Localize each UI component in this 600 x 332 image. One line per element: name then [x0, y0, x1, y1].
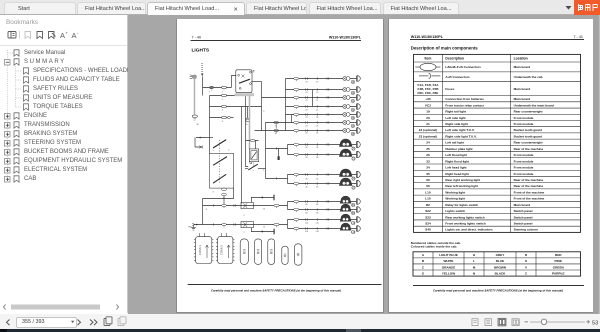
wire feed flood group	[266, 148, 288, 150]
panel toolbar separator	[0, 45, 127, 47]
ground drop on flood feed	[278, 149, 280, 161]
wire to lamp 23 right side light TUV	[286, 114, 357, 116]
terminal bar lamp 19	[357, 76, 360, 82]
wire fuse row 4	[210, 117, 234, 119]
svg-text:21: 21	[426, 122, 430, 126]
svg-text:21: 21	[316, 100, 318, 102]
svg-text:L10: L10	[316, 223, 319, 225]
connector on lamp 22 wire	[294, 105, 329, 109]
svg-text:19: 19	[426, 110, 430, 114]
panel toolbar icons	[8, 31, 56, 39]
wire working pair bus 2	[287, 220, 289, 229]
wire to head lamp 34 left	[288, 174, 357, 176]
wire lamp feed riser x265.7	[265, 123, 267, 179]
svg-text:PINK: PINK	[555, 259, 563, 263]
svg-text:Steering column: Steering column	[514, 228, 538, 232]
svg-text:2: 2	[244, 215, 245, 217]
switch S23 contact	[245, 162, 258, 170]
svg-text:Description of main components: Description of main components	[411, 45, 478, 50]
wire to head lamp 35 right	[288, 183, 357, 185]
svg-text:66: 66	[306, 213, 308, 215]
svg-text:66: 66	[316, 213, 318, 215]
wire riser x247.8 with connector	[247, 107, 249, 119]
right scrollbar strip	[593, 15, 600, 314]
connector pair below S22	[222, 188, 227, 196]
connector on F2 right	[274, 223, 279, 227]
wire gray bus from +30 down	[194, 79, 196, 115]
svg-text:+30: +30	[425, 97, 431, 101]
svg-text:W110-W130/130PL: W110-W130/130PL	[411, 35, 444, 39]
svg-text:F8C, F8C, F8E: F8C, F8C, F8E	[418, 91, 439, 95]
svg-text:Left side light T.U.V.: Left side light T.U.V.	[445, 128, 474, 132]
head lamp 35 right	[339, 178, 352, 186]
fuse F5A inline	[209, 86, 213, 91]
expander boxes	[5, 60, 11, 183]
ground terminal S1	[273, 195, 275, 201]
terminal bar lamp 20	[357, 87, 360, 93]
connector C7	[294, 244, 302, 265]
wire riser pair bus b	[291, 115, 293, 123]
relay R2	[249, 149, 258, 164]
svg-text:L10: L10	[425, 197, 431, 201]
switch S22 contact a	[213, 157, 227, 166]
svg-text:25: 25	[306, 133, 308, 135]
right page footer	[413, 285, 584, 287]
svg-text:Connection from batteries: Connection from batteries	[445, 97, 484, 101]
flood lamp 33 right	[339, 149, 352, 157]
wire to working lamp 66 rear right	[288, 201, 357, 203]
connector C6	[282, 246, 288, 264]
lamp 21 right side light	[343, 96, 350, 100]
svg-text:Left tail light: Left tail light	[445, 141, 463, 145]
svg-text:Front module: Front module	[514, 166, 534, 170]
lamp 20 left side light	[343, 88, 350, 92]
svg-text:66: 66	[306, 204, 308, 206]
cable number labels	[197, 91, 276, 234]
wire to flood lamp 26 left	[288, 144, 357, 146]
svg-text:66: 66	[426, 178, 430, 182]
svg-text:53: 53	[592, 320, 598, 326]
svg-text:Left head light: Left head light	[445, 166, 466, 170]
connector on lamp 26 wire	[294, 143, 329, 147]
svg-text:Front module: Front module	[514, 116, 534, 120]
svg-text:23 (optional): 23 (optional)	[419, 134, 437, 138]
svg-text:L10: L10	[305, 223, 308, 225]
svg-text:5: 5	[275, 126, 276, 128]
tick on head feed	[275, 177, 277, 179]
label 34	[352, 177, 356, 181]
svg-text:BLACK: BLACK	[495, 271, 507, 275]
svg-text:N: N	[473, 271, 476, 275]
tick on F1	[213, 204, 235, 206]
svg-text:PURPLE: PURPLE	[552, 271, 565, 275]
svg-text:Coloured cables inside the cab: Coloured cables inside the cab.	[411, 245, 458, 249]
terminal bar lamp 33	[357, 151, 360, 158]
svg-text:GREY: GREY	[496, 253, 506, 257]
wire flood group bus	[287, 145, 289, 155]
connector at F2 left end	[192, 223, 197, 225]
label 22	[351, 108, 355, 112]
connector C1	[194, 237, 214, 264]
svg-text:Rear counterweight: Rear counterweight	[514, 110, 543, 114]
svg-text:Front working lights switch: Front working lights switch	[445, 222, 485, 226]
wire to working lamp L10 front b	[288, 228, 357, 230]
svg-text:Front module: Front module	[514, 172, 534, 176]
svg-text:Relay for lights switch: Relay for lights switch	[445, 203, 478, 207]
svg-text:Switch panel: Switch panel	[514, 222, 533, 226]
svg-text:Item: Item	[424, 57, 431, 61]
svg-text:2: 2	[222, 99, 223, 101]
terminal bar lamp 23	[357, 112, 360, 118]
svg-text:BLUE: BLUE	[496, 259, 504, 263]
wire relay R1 to riser	[251, 81, 261, 83]
svg-text:35: 35	[306, 187, 308, 189]
svg-text:BROWN: BROWN	[494, 265, 507, 269]
svg-text:2: 2	[228, 150, 229, 152]
svg-text:1: 1	[222, 91, 223, 93]
connector on wire 25 feed	[274, 129, 279, 133]
working lamp L10 front a	[340, 214, 352, 222]
svg-text:Rear of the machine: Rear of the machine	[514, 184, 544, 188]
panel horizontal scrollbar	[4, 305, 119, 310]
svg-text:-: -	[77, 31, 79, 36]
node S40 terminal bracket	[195, 137, 206, 149]
svg-text:S40: S40	[425, 228, 431, 232]
svg-text:Right tail light: Right tail light	[445, 110, 466, 114]
svg-text:26: 26	[306, 147, 308, 149]
wire feed F2 through relay K2	[195, 224, 288, 226]
svg-text:7 - 41: 7 - 41	[574, 35, 583, 39]
svg-text:4: 4	[222, 121, 223, 123]
connector on wire working lamp L10 front b	[294, 227, 329, 231]
svg-text:19: 19	[306, 82, 308, 84]
connector on wire working lamp 66 rear right	[294, 200, 329, 204]
connector on lamp 33 wire	[294, 153, 329, 157]
svg-text:33: 33	[306, 157, 308, 159]
svg-text:33: 33	[316, 157, 318, 159]
connector on F1 right	[274, 204, 279, 208]
label 26	[352, 147, 356, 151]
svg-text:Underneath the main board: Underneath the main board	[514, 103, 554, 107]
svg-text:L10: L10	[425, 190, 431, 194]
connector on lamp 25 wire	[294, 129, 329, 133]
tick on flood feed	[275, 147, 277, 149]
head lamp 34 left	[339, 169, 352, 177]
svg-text:Front of the machine: Front of the machine	[514, 197, 545, 201]
stub ground wire S2	[251, 228, 274, 232]
svg-text:8: 8	[246, 124, 247, 126]
working lamp 66 rear right	[340, 196, 352, 204]
svg-text:4: 4	[223, 198, 224, 200]
svg-text:LIGHTS: LIGHTS	[192, 48, 210, 54]
svg-text:Front of the machine: Front of the machine	[514, 190, 545, 194]
svg-text:CONN 2: CONN 2	[220, 245, 224, 255]
wire head group bus	[287, 175, 289, 184]
svg-text:C: C	[422, 265, 425, 269]
wire feed head group	[266, 178, 288, 180]
svg-text:L: L	[473, 259, 475, 263]
svg-text:Rear right working light: Rear right working light	[445, 178, 480, 182]
terminal bar lamp 26	[357, 141, 360, 148]
connector on lamp 23 wire	[294, 113, 329, 117]
svg-text:19: 19	[316, 82, 318, 84]
wire R2 coil feed	[246, 141, 259, 149]
bookmark flags	[14, 50, 29, 182]
taskbar	[0, 329, 600, 332]
connector on wire working lamp 66 rear left	[294, 208, 329, 212]
connector on lamp 35 wire	[294, 182, 329, 186]
svg-text:B: B	[264, 209, 266, 211]
wire fuse row 2	[210, 95, 246, 97]
connector F8 block	[246, 118, 250, 121]
wire to lamp 20 left side light	[286, 89, 357, 91]
wire riser left x202.8	[202, 199, 204, 225]
label 21	[351, 99, 355, 103]
connector on wire 24 feed	[274, 121, 279, 128]
connector on lamp 24 wire	[294, 121, 329, 125]
svg-text:20: 20	[426, 116, 430, 120]
svg-text:Number plate light: Number plate light	[445, 147, 472, 151]
svg-text:2: 2	[244, 232, 245, 234]
svg-text:20: 20	[306, 92, 308, 94]
pin stubs above connectors	[200, 233, 227, 237]
svg-text:24: 24	[426, 141, 430, 145]
svg-text:35: 35	[316, 187, 318, 189]
svg-text:W110-W130/130PL: W110-W130/130PL	[329, 36, 362, 40]
svg-text:A: A	[422, 253, 425, 257]
svg-text:S24: S24	[425, 222, 431, 226]
terminal bar lamp 25	[357, 128, 360, 134]
lamp 24 left tail light	[343, 121, 350, 125]
relay K2	[241, 222, 253, 228]
svg-text:Front module: Front module	[514, 159, 534, 163]
label 19	[351, 80, 355, 84]
ground terminal S2	[273, 229, 275, 235]
svg-text:Main board: Main board	[514, 65, 531, 69]
label 35	[352, 186, 356, 190]
left page footer rule	[188, 284, 382, 286]
label 25	[351, 132, 355, 136]
svg-text:Main board: Main board	[514, 203, 531, 207]
label 66	[352, 211, 356, 215]
svg-text:Rear left working light: Rear left working light	[445, 184, 478, 188]
fuse F1B	[222, 94, 227, 97]
wire to lamp 19 right tail light	[286, 78, 357, 80]
svg-text:35: 35	[426, 172, 430, 176]
svg-text:R: R	[525, 253, 528, 257]
lamp 25 number plate light	[343, 129, 350, 133]
svg-text:Underneath the cab: Underneath the cab	[514, 75, 543, 79]
status bar right view icons	[472, 318, 519, 326]
svg-text:23: 23	[316, 117, 318, 119]
svg-text:24: 24	[306, 125, 308, 127]
svg-text:Carefully read personal and ma: Carefully read personal and machine SAFE…	[433, 288, 563, 292]
switch gang dashed link	[219, 140, 221, 184]
zoom slider	[525, 319, 591, 324]
svg-text:6: 6	[275, 133, 276, 135]
svg-text:L10: L10	[316, 231, 319, 233]
cable notes	[411, 241, 461, 249]
svg-text:Right side light T.U.V.: Right side light T.U.V.	[445, 134, 477, 138]
svg-text:Working light: Working light	[445, 197, 465, 201]
svg-text:YELLOW: YELLOW	[442, 271, 455, 275]
svg-text:Rear of the machine: Rear of the machine	[514, 147, 544, 151]
svg-text:G: G	[422, 271, 425, 275]
components table grid	[414, 54, 581, 232]
wire to lamp 21 right side light	[262, 97, 357, 99]
svg-text:Right side light: Right side light	[445, 122, 467, 126]
switch S22 contact b	[213, 174, 226, 183]
svg-text:+: +	[65, 31, 68, 36]
flood lamp 26 left	[339, 139, 352, 147]
connector on wire working lamp L10 front a	[294, 218, 329, 222]
tab bar	[0, 0, 600, 15]
svg-text:A+B Connectors: A+B Connectors	[445, 75, 470, 79]
svg-text:7: 7	[253, 171, 254, 173]
document area	[128, 15, 600, 314]
terminal bar lamp 22	[357, 104, 360, 110]
connector on switch feed	[227, 117, 230, 119]
relay R1	[236, 70, 255, 93]
svg-text:S: S	[525, 259, 527, 263]
terminal bar lamp 24	[357, 120, 360, 126]
bookmark tree lines	[8, 50, 23, 179]
svg-text:66: 66	[316, 204, 318, 206]
lamp 22 left side light TUV	[343, 105, 350, 109]
svg-text:23: 23	[306, 117, 308, 119]
lamp 19 right tail light	[343, 77, 350, 81]
relay K1	[241, 203, 253, 209]
svg-text:CONN 1: CONN 1	[198, 245, 202, 255]
svg-text:Left side light: Left side light	[445, 116, 465, 120]
svg-text:Location: Location	[514, 57, 528, 61]
status bar left controls	[7, 320, 98, 326]
svg-text:24: 24	[316, 125, 318, 127]
svg-text:66: 66	[426, 184, 430, 188]
svg-text:34: 34	[306, 179, 308, 181]
svg-text:S22: S22	[425, 209, 431, 213]
svg-text:3: 3	[213, 191, 214, 193]
svg-text:Carefully read personal and ma: Carefully read personal and machine SAFE…	[211, 288, 341, 292]
svg-text:Switch panel: Switch panel	[514, 209, 533, 213]
wire main distribution bus	[285, 79, 287, 131]
stub ground wire S1	[251, 198, 274, 203]
status bar	[0, 314, 600, 329]
svg-text:8: 8	[206, 209, 207, 211]
components table text	[415, 57, 554, 232]
label 66	[352, 203, 356, 207]
svg-text:20: 20	[316, 92, 318, 94]
svg-text:Rear working lights switch: Rear working lights switch	[445, 215, 484, 219]
svg-text:From tractor relay contact: From tractor relay contact	[445, 103, 483, 107]
wire into relay R1	[232, 76, 236, 88]
svg-text:S23: S23	[425, 215, 431, 219]
svg-text:Front module: Front module	[514, 122, 534, 126]
lamp 23 right side light TUV	[343, 113, 350, 117]
relay R1 pad	[235, 93, 254, 96]
label 23	[351, 116, 355, 120]
terminal bar lamp 34	[357, 171, 360, 178]
wire to lamp 25 number plate light	[255, 130, 357, 132]
svg-text:34: 34	[426, 166, 430, 170]
connector C3	[240, 239, 248, 265]
connector C4	[255, 239, 262, 265]
wire S23 output to riser	[258, 168, 266, 170]
svg-text:L10: L10	[351, 222, 356, 225]
switch S40 contact	[206, 138, 226, 149]
svg-text:Main board: Main board	[514, 87, 531, 91]
fuse F1A	[222, 86, 227, 90]
svg-text:Fuses: Fuses	[445, 87, 454, 91]
svg-text:Front module: Front module	[514, 153, 534, 157]
svg-text:22 (optional): 22 (optional)	[419, 128, 437, 132]
wire riser x245	[246, 96, 249, 167]
fuse F4B	[222, 116, 227, 119]
wire to flood lamp 33 right	[288, 154, 357, 156]
terminal bar working lamp L10 front b	[357, 226, 360, 232]
node +30 battery feed connector	[190, 75, 197, 79]
wire feed F1 through relay K1	[203, 205, 288, 207]
wire S22 output down	[203, 188, 234, 205]
wire working pair bus 1	[287, 202, 289, 210]
svg-text:Bucket tooth guard: Bucket tooth guard	[514, 134, 542, 138]
switch S22 box	[209, 154, 233, 189]
svg-text:Right flood light: Right flood light	[445, 159, 469, 163]
svg-text:Main board: Main board	[514, 97, 531, 101]
svg-text:30: 30	[197, 124, 199, 126]
svg-text:22: 22	[316, 110, 318, 112]
svg-text:R2: R2	[426, 203, 430, 207]
label L10	[351, 221, 356, 225]
label 20	[351, 91, 355, 95]
svg-text:1: 1	[213, 150, 214, 152]
tabbar caret	[566, 6, 572, 10]
wire fuse row 3	[210, 106, 262, 108]
svg-text:Z: Z	[525, 271, 527, 275]
svg-text:Lights switch: Lights switch	[445, 209, 465, 213]
wire riser pair bus a	[312, 90, 314, 107]
terminal bar lamp 35	[357, 180, 360, 187]
wire mid labels	[305, 82, 319, 233]
svg-text:Lights sw. and direct. indicat: Lights sw. and direct. indicators	[445, 228, 492, 232]
svg-text:26: 26	[426, 153, 430, 157]
connector on lamp 20 wire	[294, 88, 329, 92]
connector C2	[216, 237, 235, 264]
working lamp 66 rear left	[340, 204, 352, 212]
svg-text:9: 9	[263, 111, 264, 113]
wire to lamp 24 left tail light	[266, 122, 357, 124]
terminal bar working lamp 66 rear right	[357, 199, 360, 205]
label L10	[351, 230, 356, 234]
svg-text:7 - 40: 7 - 40	[192, 36, 201, 40]
svg-text:Right head light: Right head light	[445, 172, 468, 176]
svg-text:Left flood light: Left flood light	[445, 153, 466, 157]
svg-text:V: V	[525, 265, 528, 269]
connector C5	[268, 239, 275, 265]
svg-text:Description: Description	[445, 57, 464, 61]
left page header	[191, 36, 362, 54]
svg-text:L10: L10	[351, 231, 356, 234]
svg-text:WHITE: WHITE	[444, 259, 454, 263]
svg-text:34: 34	[316, 179, 318, 181]
svg-text:21: 21	[306, 100, 308, 102]
svg-text:26: 26	[316, 147, 318, 149]
junction dot S1	[261, 197, 263, 199]
svg-text:2: 2	[263, 169, 264, 171]
svg-text:L10: L10	[305, 231, 308, 233]
svg-text:ORANGE: ORANGE	[442, 265, 456, 269]
svg-text:H: H	[473, 253, 476, 257]
